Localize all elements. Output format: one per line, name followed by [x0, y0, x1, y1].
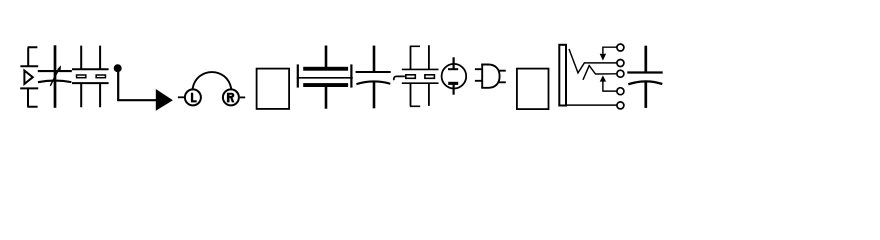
headphones H1 right earphone R — [223, 89, 239, 105]
lead dash out of right earphone — [240, 96, 245, 98]
vacuum tube diode V1 bottom wire — [453, 85, 455, 95]
trimmer capacitor gang C5 adjustment lead — [394, 76, 405, 80]
trimmer capacitor gang C2 lower bus line — [72, 82, 109, 84]
plug P1 left pins — [475, 69, 482, 81]
vacuum tube diode V1 cathode bar — [448, 82, 458, 85]
capacitor C4 top wire — [373, 46, 376, 72]
photo-sensor D1 top lead stem — [28, 47, 38, 66]
vacuum tube diode V1 anode bar — [448, 68, 458, 70]
trimmer capacitor gang C5 slug 1 — [406, 75, 416, 79]
jack J1 terminal 3 — [617, 70, 624, 77]
plug P1 right pins — [498, 71, 506, 83]
photo-sensor D1 top electrode plate — [20, 65, 38, 67]
photo-sensor D1 bottom electrode plate — [20, 87, 38, 89]
variable capacitor C1 wire — [54, 45, 57, 108]
lead dash into left earphone — [178, 96, 184, 98]
capacitor C4 curved plate — [356, 81, 390, 84]
module box U2 — [517, 69, 549, 110]
jack J1 body frame — [559, 45, 566, 106]
trimmer capacitor gang C5 top wires — [411, 45, 429, 69]
headphones H1 left earphone L — [185, 89, 201, 105]
feedthrough capacitor C3 top plate bar — [303, 67, 348, 71]
module box U1 — [257, 69, 290, 109]
photo-sensor D1 triangle — [24, 71, 32, 84]
jack J1 spring contact 1 — [569, 49, 617, 73]
feedthrough capacitor C3 center conductor — [297, 77, 353, 79]
jack J1 terminal 4 — [617, 88, 624, 95]
variable capacitor C1 curved plate — [38, 81, 71, 83]
jack J1 terminal 1 — [617, 44, 624, 51]
jack J1 terminal 2 — [617, 60, 624, 67]
feedthrough capacitor C3 right bracket — [350, 64, 352, 87]
amplifier arrowhead A1 — [156, 89, 173, 111]
trimmer capacitor gang C2 upper bus line — [72, 68, 109, 70]
vacuum tube diode V1 top wire — [453, 57, 455, 68]
capacitor C4 straight plate — [356, 71, 391, 73]
trimmer capacitor gang C2 top wires — [81, 46, 100, 70]
jack J1 sleeve line to terminal 5 — [566, 104, 617, 106]
photo-sensor D1 bottom lead stem — [27, 88, 37, 106]
vacuum tube diode V1 envelope — [442, 64, 467, 89]
headphones H1 headband arc — [193, 72, 232, 89]
trimmer capacitor gang C5 lower bus line — [402, 82, 439, 84]
capacitor C4 bottom wire — [373, 82, 376, 108]
jack J1 spring contact 2 — [583, 66, 617, 80]
jack J1 make lead with up arrow — [603, 81, 617, 91]
capacitor C6 straight plate — [627, 71, 662, 73]
junction node dot — [114, 64, 122, 72]
feedthrough capacitor C3 bottom plate bar — [303, 83, 348, 87]
trimmer capacitor gang C5 bottom wires — [411, 83, 429, 106]
trimmer capacitor gang C2 bottom wires — [81, 83, 100, 107]
trimmer capacitor gang C5 left wire bottom foot — [410, 105, 420, 107]
variable capacitor C1 adjustment arrow — [50, 68, 59, 85]
feedthrough capacitor C3 bottom wire — [325, 87, 328, 109]
trimmer capacitor gang C2 slug 1 — [77, 75, 86, 78]
wire from node to amplifier — [118, 70, 156, 100]
trimmer capacitor gang C5 upper bus line — [402, 68, 439, 70]
trimmer capacitor gang C5 left wire top cap — [410, 45, 420, 47]
variable capacitor C1 straight plate — [38, 70, 72, 72]
jack J1 terminal 5 — [617, 102, 624, 109]
capacitor C6 top wire — [644, 46, 647, 73]
capacitor C6 bottom wire — [644, 82, 647, 108]
plug P1 body — [481, 64, 499, 89]
trimmer capacitor gang C2 slug 2 — [96, 75, 105, 78]
trimmer capacitor gang C5 slug 2 — [425, 75, 435, 79]
feedthrough capacitor C3 left bracket — [297, 64, 299, 87]
capacitor C6 curved plate — [628, 81, 662, 84]
jack J1 break lead with down arrow — [603, 47, 617, 54]
feedthrough capacitor C3 top wire — [325, 46, 328, 68]
